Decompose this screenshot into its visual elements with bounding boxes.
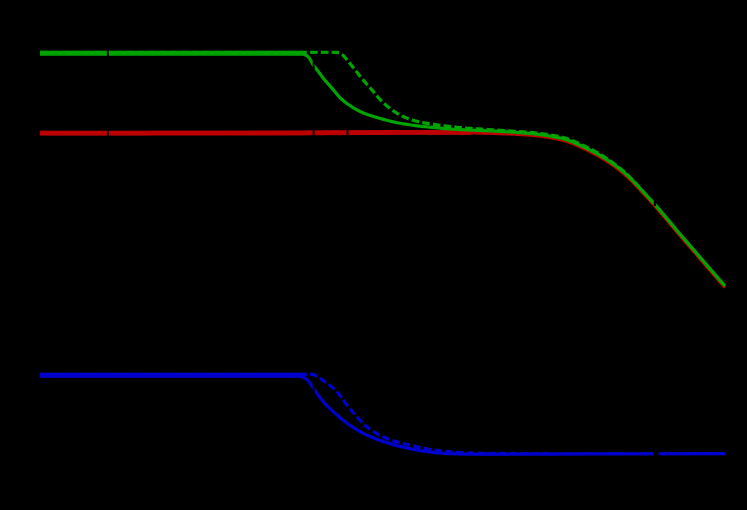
tick notch x=108 on green: [107, 45, 109, 61]
tick notch x=655 on blue tail: [653, 448, 658, 459]
blue flat underlay: [40, 373, 303, 378]
tick notch x=347.5 on red: [347, 126, 349, 140]
green solid curve: [40, 53, 725, 286]
blue dashed curve: [40, 374, 725, 454]
red flat underlay: [40, 130, 470, 136]
tick notch x=313.6 on red: [313, 126, 315, 140]
green flat underlay: [40, 51, 305, 56]
tick notch x=655 on green/red descent: [654, 197, 656, 206]
red dashed curve: [40, 132, 725, 288]
blue solid curve: [40, 376, 725, 454]
tick notch x=313.6 on blue descent: [313, 383, 315, 393]
tick notch x=108 on red: [107, 125, 109, 141]
green dashed curve: [40, 52, 725, 286]
red solid curve: [40, 133, 725, 288]
tick notch x=313.6 on green descent: [313, 60, 315, 70]
